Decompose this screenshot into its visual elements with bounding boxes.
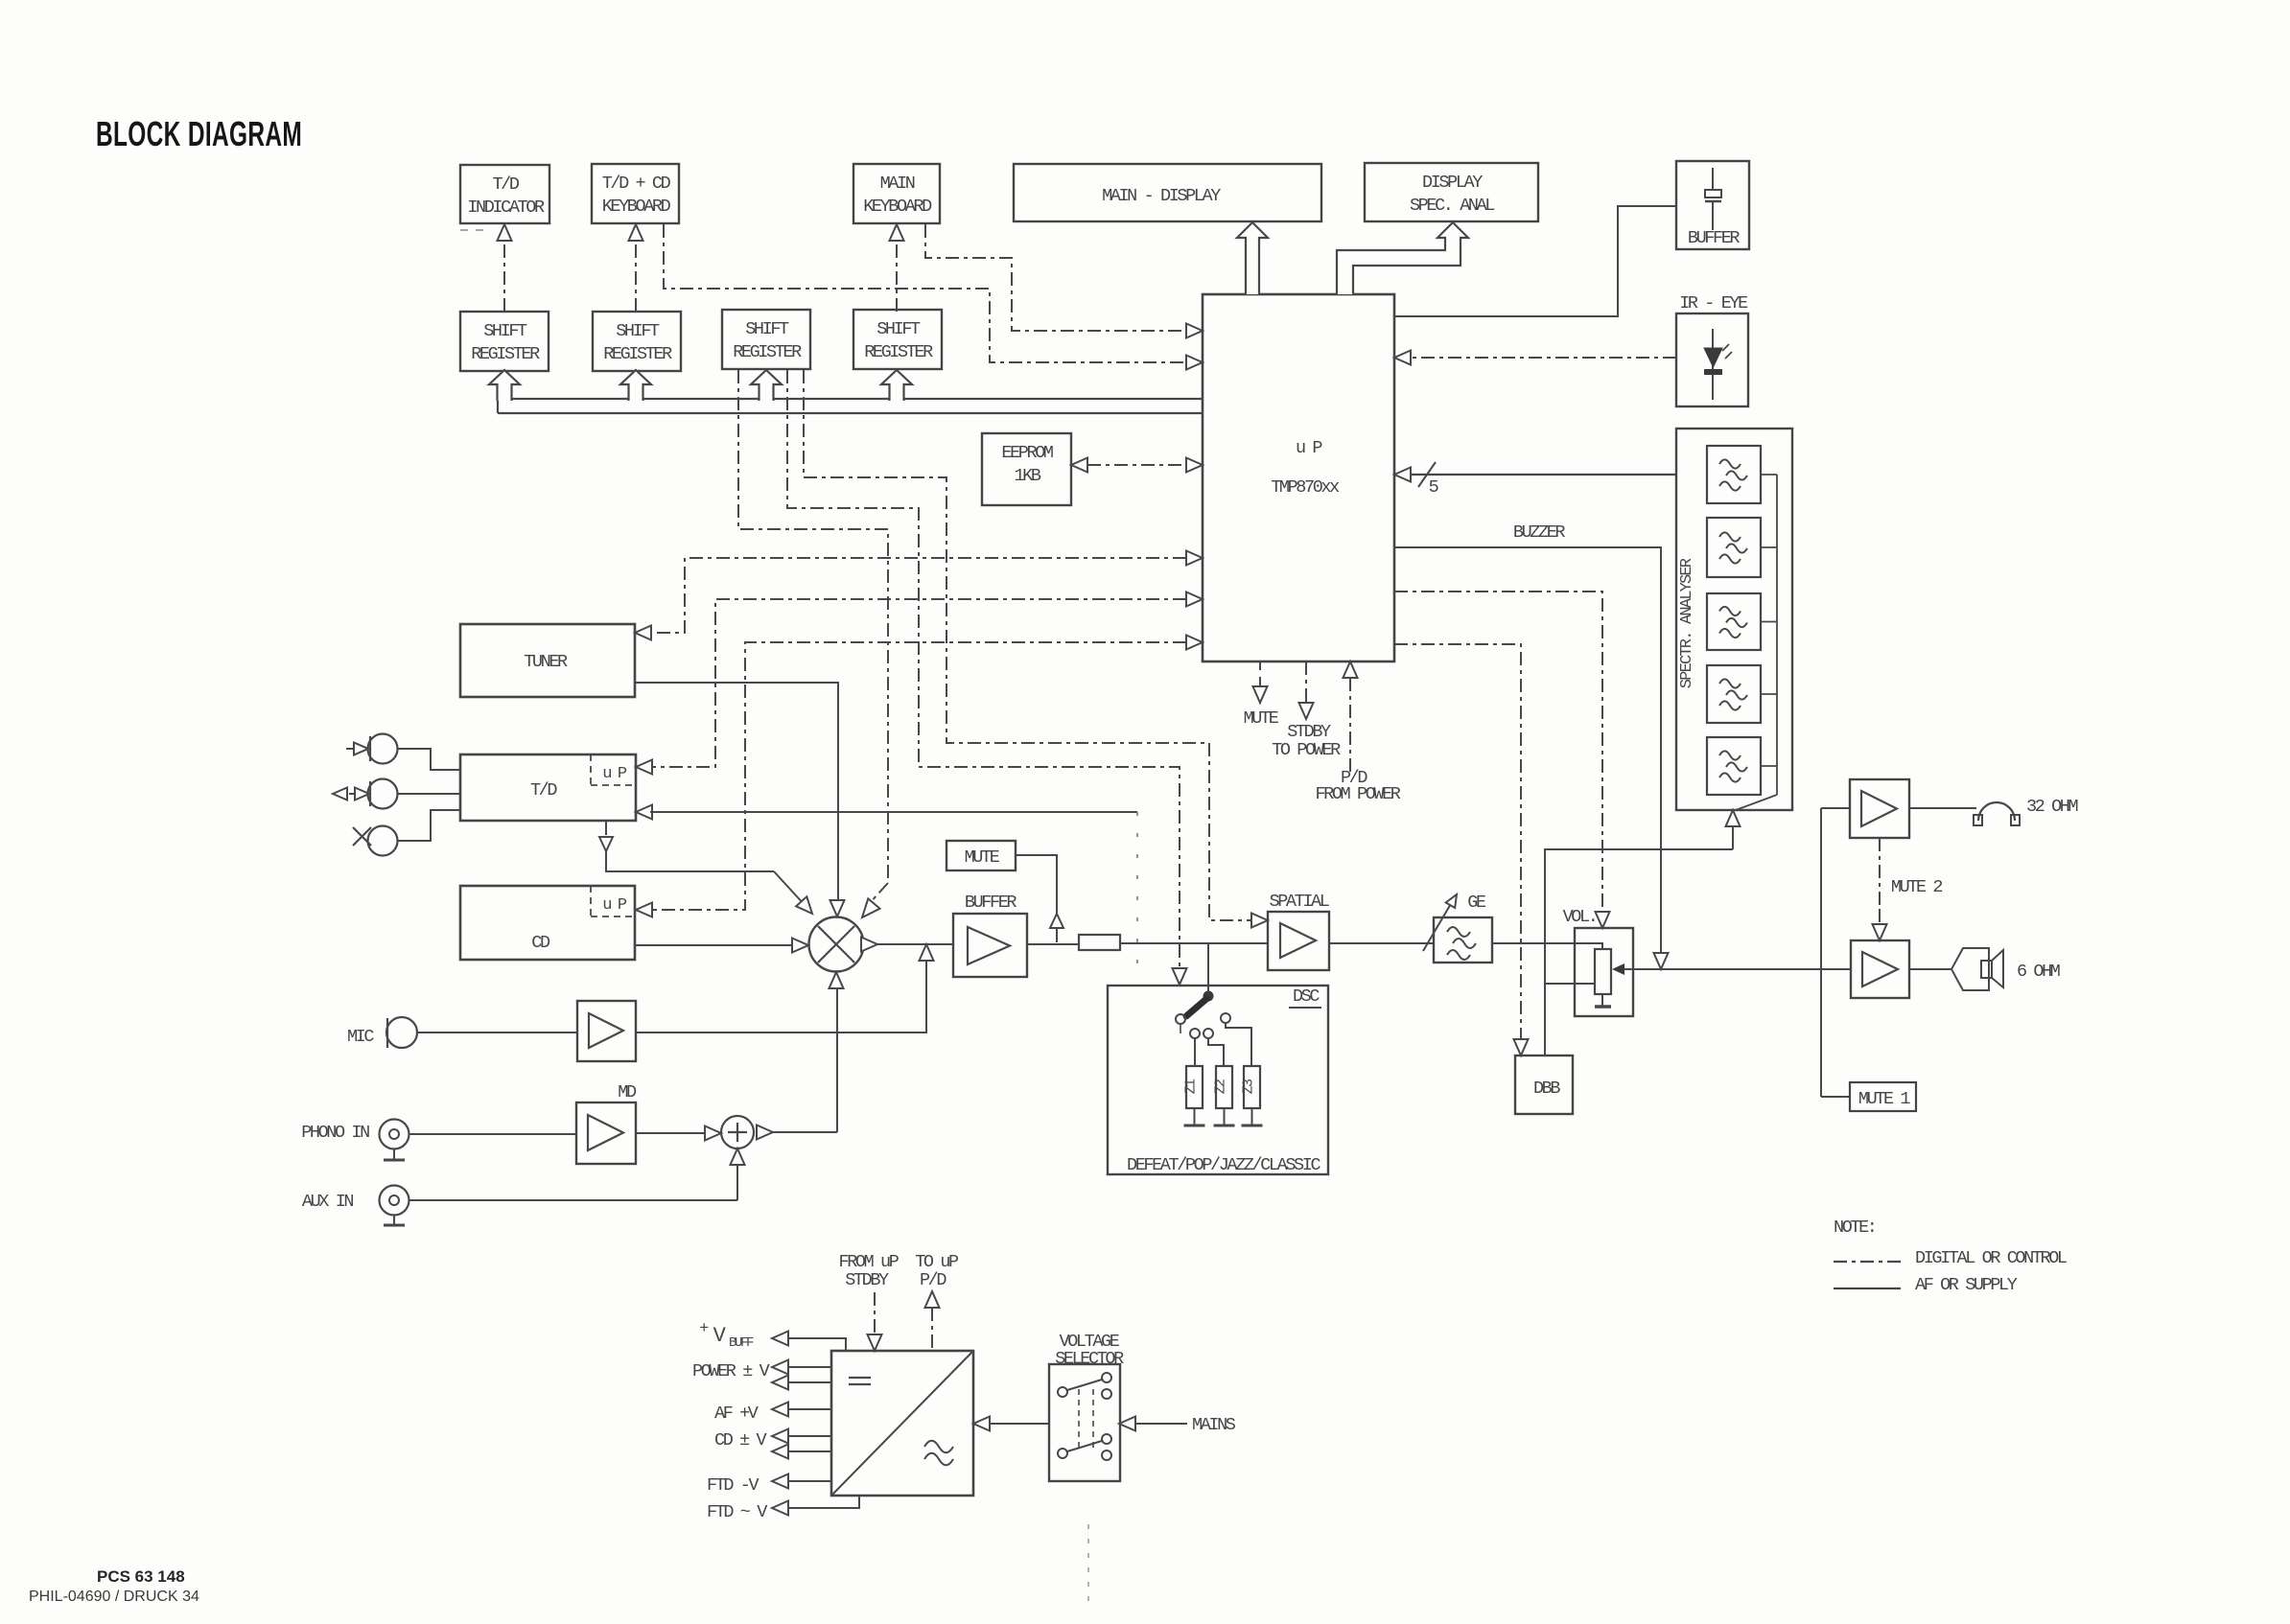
block MAIN - DISPLAY bbox=[1014, 164, 1321, 221]
wire faint drop to DSC area bbox=[1136, 812, 1138, 980]
filter box 4 bbox=[1707, 665, 1761, 723]
block SPATIAL bbox=[1268, 912, 1329, 970]
svg-text:SELECTOR: SELECTOR bbox=[1055, 1349, 1124, 1369]
svg-text:u P: u P bbox=[602, 896, 627, 915]
svg-text:SPECTR. ANALYSER: SPECTR. ANALYSER bbox=[1678, 558, 1696, 688]
block TUNER bbox=[460, 624, 635, 697]
wire PSU output CD2 bbox=[772, 1445, 788, 1459]
wire T/D audio out to mixer bbox=[605, 821, 607, 835]
big arrow into SR4 bbox=[881, 370, 912, 401]
svg-text:STDBY: STDBY bbox=[845, 1270, 889, 1290]
wire CD audio out to mixer bbox=[635, 944, 794, 946]
wire T/D audio line from right bbox=[636, 805, 652, 820]
wire uP to TUNER control bbox=[650, 558, 1186, 633]
big arrow uP to DISPLAY SPEC.ANAL bbox=[1337, 222, 1468, 294]
svg-text:SHIFT: SHIFT bbox=[745, 319, 789, 339]
svg-text:REGISTER: REGISTER bbox=[733, 342, 802, 362]
wire contact3 to Z3 bbox=[1226, 1023, 1251, 1066]
wire amp feed vertical bbox=[1820, 808, 1822, 1097]
mixer circle bbox=[809, 917, 864, 972]
summer bottom input bbox=[731, 1148, 745, 1165]
wire spatial out bbox=[1329, 942, 1434, 944]
svg-text:SHIFT: SHIFT bbox=[876, 319, 921, 339]
wire T/D+CD KEYBOARD to uP bbox=[664, 224, 1186, 362]
block EEPROM 1KB bbox=[982, 433, 1071, 505]
svg-text:TO uP: TO uP bbox=[915, 1252, 959, 1272]
big arrow into SR2 bbox=[620, 370, 651, 401]
svg-text:FTD ~ V: FTD ~ V bbox=[707, 1502, 767, 1522]
svg-text:MUTE: MUTE bbox=[1244, 708, 1279, 729]
svg-text:INDICATOR: INDICATOR bbox=[467, 197, 545, 218]
spectrum input arrow bbox=[1726, 810, 1741, 826]
svg-text:PHIL-04690 / DRUCK 34: PHIL-04690 / DRUCK 34 bbox=[29, 1589, 199, 1605]
svg-text:PCS 63 148: PCS 63 148 bbox=[97, 1567, 185, 1586]
big arrow uP to MAIN-DISPLAY bbox=[1237, 222, 1268, 294]
svg-text:Z3: Z3 bbox=[1241, 1079, 1257, 1094]
block MD amp bbox=[576, 1102, 636, 1164]
svg-text:BUFFER: BUFFER bbox=[965, 893, 1017, 913]
big arrow into SR3 bbox=[751, 370, 782, 401]
block SHIFT REGISTER 3 bbox=[722, 310, 810, 369]
wire mute1 connection bbox=[1821, 1096, 1850, 1098]
svg-text:MIC: MIC bbox=[347, 1027, 374, 1047]
svg-text:SHIFT: SHIFT bbox=[483, 321, 527, 341]
svg-text:REGISTER: REGISTER bbox=[864, 342, 933, 362]
block CD bbox=[460, 886, 635, 960]
svg-text:KEYBOARD: KEYBOARD bbox=[863, 197, 932, 217]
wire PSU output POWER2 bbox=[772, 1376, 788, 1390]
wire uP STDBY TO POWER bbox=[1305, 661, 1307, 703]
svg-text:BUZZER: BUZZER bbox=[1513, 522, 1566, 543]
svg-text:STDBY: STDBY bbox=[1287, 722, 1331, 742]
headphone symbol bbox=[1978, 802, 2015, 821]
block DSC box bbox=[1108, 986, 1328, 1174]
svg-text:DISPLAY: DISPLAY bbox=[1422, 173, 1483, 193]
phono socket bbox=[380, 1120, 409, 1149]
summer out bbox=[757, 1125, 773, 1140]
svg-text:AF +V: AF +V bbox=[714, 1404, 759, 1424]
svg-text:32 OHM: 32 OHM bbox=[2026, 797, 2078, 817]
filter box 5 bbox=[1707, 737, 1761, 795]
wire SR1 stem join bbox=[497, 399, 499, 413]
wire contact2 to Z2 bbox=[1208, 1038, 1224, 1066]
block uP TMP870xx bbox=[1203, 294, 1394, 661]
svg-text:MUTE 2: MUTE 2 bbox=[1891, 877, 1943, 897]
wire GE out bbox=[1492, 942, 1575, 944]
svg-text:BUFF: BUFF bbox=[729, 1335, 754, 1351]
filter box 1 bbox=[1707, 446, 1761, 503]
block DISPLAY SPEC. ANAL bbox=[1365, 163, 1538, 221]
summer circle bbox=[721, 1116, 754, 1148]
wire 5-bus spectrum analyser to uP bbox=[1411, 474, 1676, 476]
wire uP MUTE output bbox=[1259, 661, 1261, 686]
svg-text:u P: u P bbox=[1296, 438, 1322, 458]
svg-text:5: 5 bbox=[1429, 477, 1438, 498]
svg-text:REGISTER: REGISTER bbox=[603, 344, 672, 364]
block SHIFT REGISTER 4 bbox=[853, 310, 942, 369]
svg-text:6 OHM: 6 OHM bbox=[2017, 962, 2060, 982]
svg-text:T/D + CD: T/D + CD bbox=[602, 174, 671, 194]
wire uP to BUFFER bbox=[1394, 206, 1676, 316]
wire mic to amp bbox=[417, 1032, 577, 1033]
block T/D bbox=[460, 754, 636, 821]
svg-text:TMP870xx: TMP870xx bbox=[1271, 477, 1340, 498]
wire SR3 line to DSC bbox=[787, 370, 1180, 968]
wire P/D FROM POWER to uP bbox=[1344, 661, 1358, 678]
wire audio to spectrum/DBB bbox=[1545, 849, 1733, 1056]
wire socket1 to T/D bbox=[397, 749, 460, 770]
wire contact1 to Z1 bbox=[1194, 1038, 1196, 1066]
block DBB bbox=[1515, 1056, 1573, 1114]
wire PSU output FTD- bbox=[772, 1474, 788, 1489]
wire IR-EYE to uP bbox=[1411, 357, 1676, 359]
wire uP to T/D control bbox=[651, 599, 1186, 767]
block T/D + CD KEYBOARD bbox=[592, 164, 679, 223]
svg-text:NOTE:: NOTE: bbox=[1834, 1218, 1876, 1238]
wire bus2 (lower) to uP bbox=[498, 412, 1203, 414]
block BUFFER (display buffer) bbox=[1676, 161, 1749, 249]
wire bus1 (upper) to uP bbox=[511, 398, 1203, 400]
block VOLTAGE SELECTOR bbox=[1049, 1364, 1120, 1481]
block IR-EYE (LED) bbox=[1676, 313, 1748, 406]
block BUFFER amp bbox=[953, 914, 1027, 977]
svg-text:CD ± V: CD ± V bbox=[714, 1430, 767, 1450]
svg-text:T/D: T/D bbox=[530, 780, 557, 800]
svg-text:GE: GE bbox=[1467, 893, 1486, 913]
svg-text:MUTE 1: MUTE 1 bbox=[1858, 1089, 1911, 1109]
filter box 3 bbox=[1707, 593, 1761, 650]
wire PSU output AF bbox=[772, 1403, 788, 1417]
mixer bottom input bbox=[836, 987, 838, 1132]
wire uP to CD control bbox=[651, 642, 1186, 910]
block T/D INDICATOR bbox=[460, 165, 549, 223]
wire PSU output +VBUFF bbox=[772, 1332, 788, 1346]
svg-text:MAIN - DISPLAY: MAIN - DISPLAY bbox=[1102, 186, 1221, 206]
wire TO uP P/D bbox=[925, 1291, 940, 1308]
big arrow into SR1 bbox=[489, 370, 520, 401]
block SHIFT REGISTER 1 bbox=[460, 312, 549, 371]
svg-text:CD: CD bbox=[531, 933, 550, 953]
svg-text:IR - EYE: IR - EYE bbox=[1679, 293, 1748, 313]
wire diagonal to input arrow bbox=[1736, 795, 1777, 810]
block SPECTR. ANALYSER outer bbox=[1676, 429, 1792, 810]
svg-text:DEFEAT/POP/JAZZ/CLASSIC: DEFEAT/POP/JAZZ/CLASSIC bbox=[1127, 1155, 1320, 1175]
svg-text:AF OR SUPPLY: AF OR SUPPLY bbox=[1915, 1275, 2018, 1295]
svg-text:MUTE: MUTE bbox=[965, 847, 1000, 868]
block MAIN KEYBOARD bbox=[853, 164, 940, 223]
svg-text:FROM POWER: FROM POWER bbox=[1315, 784, 1400, 804]
block headphone amp bbox=[1850, 779, 1909, 838]
wire FROM uP STDBY bbox=[874, 1292, 876, 1334]
wire SR3 line to mixer (mute) bbox=[738, 370, 888, 883]
wire buffer out / resistor bbox=[1027, 943, 1079, 945]
svg-text:SPATIAL: SPATIAL bbox=[1270, 892, 1329, 912]
mic symbol bbox=[386, 1017, 417, 1048]
legend dash-dot line bbox=[1834, 1261, 1901, 1263]
block MIC amp bbox=[577, 1001, 636, 1061]
impedance Z1 bbox=[1186, 1066, 1203, 1108]
svg-text:REGISTER: REGISTER bbox=[471, 344, 540, 364]
block speaker amp bbox=[1851, 940, 1909, 998]
svg-text:BLOCK DIAGRAM: BLOCK DIAGRAM bbox=[96, 114, 302, 153]
svg-text:Z2: Z2 bbox=[1213, 1079, 1229, 1094]
socket 1 (T/D in) bbox=[368, 734, 398, 764]
block MUTE (source mute) bbox=[946, 841, 1016, 870]
svg-text:EEPROM: EEPROM bbox=[1001, 443, 1053, 463]
svg-text:KEYBOARD: KEYBOARD bbox=[602, 197, 671, 217]
wire MAIN KEYBOARD to uP bbox=[925, 224, 1186, 331]
wire socket2 to T/D bbox=[397, 793, 460, 795]
title BLOCK DIAGRAM bbox=[96, 114, 302, 153]
wire speaker out bbox=[1909, 968, 1951, 970]
wire uP to DBB control bbox=[1394, 644, 1521, 1039]
svg-text:FROM uP: FROM uP bbox=[839, 1252, 900, 1272]
wire PSU output FTD~ bbox=[772, 1501, 788, 1516]
block GE (graphic equalizer) bbox=[1434, 917, 1492, 963]
wire SR4 to MAIN KEYBOARD bbox=[896, 240, 898, 312]
wire uP to VOL control bbox=[1394, 592, 1602, 912]
svg-text:DIGITAL OR CONTROL: DIGITAL OR CONTROL bbox=[1915, 1248, 2067, 1268]
svg-text:VOL.: VOL. bbox=[1563, 907, 1597, 927]
wire MUTE 2 control bbox=[1879, 838, 1881, 909]
filter box 2 bbox=[1707, 518, 1761, 577]
block VOL bbox=[1575, 928, 1633, 1016]
svg-text:FTD -V: FTD -V bbox=[707, 1475, 759, 1496]
svg-text:MAINS: MAINS bbox=[1192, 1415, 1236, 1435]
wire SR1 to T/D INDICATOR bbox=[503, 240, 505, 312]
block SHIFT REGISTER 2 bbox=[593, 312, 681, 371]
wire aux to summer bbox=[409, 1199, 737, 1201]
svg-text:DBB: DBB bbox=[1533, 1079, 1560, 1099]
wire socket3 to T/D bbox=[397, 810, 460, 841]
DSC switch bbox=[1203, 991, 1214, 1002]
mixer output arrow bbox=[861, 938, 877, 952]
wire EEPROM to uP (bidirectional) bbox=[1087, 464, 1186, 466]
artifact dashed line below selector bbox=[1087, 1524, 1089, 1611]
svg-text:u P: u P bbox=[602, 765, 627, 783]
wire PSU output CD1 bbox=[772, 1429, 788, 1444]
wire audio tap to DSC switch bbox=[1207, 943, 1209, 991]
wire MUTE to audio line bbox=[1016, 855, 1057, 942]
legend solid line bbox=[1834, 1288, 1901, 1289]
svg-text:MAIN: MAIN bbox=[880, 174, 915, 194]
svg-text:AUX IN: AUX IN bbox=[302, 1192, 354, 1212]
block power supply bbox=[831, 1351, 973, 1496]
svg-text:Z1: Z1 bbox=[1183, 1079, 1200, 1094]
wire TUNER audio out bbox=[635, 683, 838, 901]
volume wiper arrow bbox=[1612, 963, 1624, 975]
block MUTE 1 bbox=[1850, 1082, 1916, 1111]
wire PSU output POWER1 bbox=[772, 1360, 788, 1375]
wire phono to MD amp bbox=[409, 1133, 576, 1135]
impedance Z2 bbox=[1216, 1066, 1232, 1108]
socket 3 (T/D X) bbox=[368, 826, 398, 856]
socket 2 (T/D in/out) bbox=[368, 779, 398, 809]
impedance Z3 bbox=[1244, 1066, 1260, 1108]
svg-text:SHIFT: SHIFT bbox=[616, 321, 660, 341]
wire VOL to power amps bbox=[1661, 968, 1851, 970]
svg-text:TO POWER: TO POWER bbox=[1272, 740, 1341, 760]
svg-text:POWER ± V: POWER ± V bbox=[692, 1361, 770, 1381]
wire mic amp out bbox=[636, 960, 926, 1032]
wire SR2 to T/D+CD KEYBOARD bbox=[635, 240, 637, 312]
svg-text:TUNER: TUNER bbox=[524, 652, 568, 672]
wire stub near T/D INDICATOR bbox=[460, 229, 487, 231]
svg-text:PHONO IN: PHONO IN bbox=[301, 1123, 369, 1143]
wire BUZZER uP to volume line bbox=[1394, 547, 1661, 953]
wire SR3 line to SPATIAL bbox=[804, 370, 1250, 920]
aux socket bbox=[380, 1186, 409, 1216]
svg-text:SPEC. ANAL: SPEC. ANAL bbox=[1410, 196, 1494, 216]
svg-text:1KB: 1KB bbox=[1014, 466, 1040, 486]
svg-text:MD: MD bbox=[618, 1082, 637, 1102]
speaker symbol bbox=[1951, 948, 1989, 990]
svg-text:T/D: T/D bbox=[492, 174, 519, 195]
wire MAINS to selector bbox=[1119, 1417, 1135, 1431]
svg-text:DSC: DSC bbox=[1293, 986, 1320, 1007]
wire headphone out bbox=[1909, 807, 1976, 809]
wire filter join vertical bbox=[1776, 475, 1778, 795]
svg-text:P/D: P/D bbox=[920, 1270, 946, 1290]
wire selector to PSU bbox=[973, 1417, 990, 1431]
wire MD out to summer bbox=[636, 1132, 706, 1134]
svg-text:BUFFER: BUFFER bbox=[1688, 228, 1741, 248]
